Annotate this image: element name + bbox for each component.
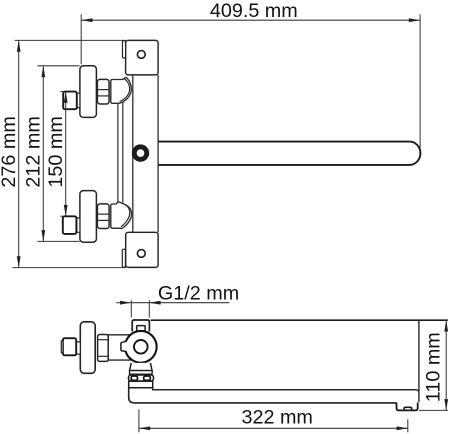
- collar band B right pill: [144, 376, 151, 380]
- bottom handle escutcheon: [111, 202, 132, 229]
- collar band B: [129, 375, 154, 381]
- bottom handle hex adapter: [97, 204, 109, 229]
- center screw ring: [132, 144, 149, 161]
- bottom handle neck: [77, 218, 80, 232]
- dimension 150 mm line: [60, 92, 65, 217]
- valve inner circle: [134, 340, 148, 354]
- svg-text:276 mm: 276 mm: [0, 116, 20, 187]
- dimension G1/2 arrowheads: [120, 301, 161, 305]
- svg-text:110 mm: 110 mm: [423, 332, 445, 402]
- bottom handle cap: [80, 191, 97, 243]
- dimension 212 arrowheads: [41, 66, 45, 242]
- collar band C: [129, 381, 153, 388]
- dimension 110 mm line: [419, 320, 448, 410]
- svg-text:322 mm: 322 mm: [241, 406, 312, 428]
- top handle knob: [63, 92, 77, 110]
- dimension 150 arrowheads: [64, 92, 68, 217]
- dimension 409.5 mm line: [81, 14, 420, 149]
- dimension 409.5 arrowheads: [81, 18, 420, 22]
- side view spout right edge: [418, 321, 420, 403]
- top mounting plate: [126, 40, 159, 75]
- aerator bump: [404, 407, 412, 410]
- collar band B left pill: [131, 376, 138, 380]
- dimension 322 arrowheads: [139, 426, 408, 430]
- valve lug: [121, 341, 127, 351]
- dimension 322 mm line: [139, 409, 408, 432]
- dimension G1/2 line: [116, 300, 229, 317]
- top handle neck: [77, 93, 80, 107]
- bottom mounting plate: [126, 232, 158, 267]
- svg-text:212 mm: 212 mm: [22, 116, 44, 187]
- G1/2 fitting: [132, 320, 149, 332]
- bottom handle knob: [63, 216, 77, 234]
- side view spout top edge / 110 ext: [151, 319, 448, 321]
- bottom mounting tab: [122, 249, 125, 267]
- top handle hex adapter: [97, 79, 109, 104]
- side knob end cap: [61, 341, 63, 353]
- side handle knob: [63, 338, 76, 355]
- collar band A: [130, 371, 153, 375]
- side adapter plate: [108, 335, 130, 360]
- side handle disc: [80, 322, 95, 374]
- dimension 212 mm line: [37, 66, 79, 242]
- faucet body column (front view): [133, 75, 158, 232]
- cover trim strip: [118, 102, 123, 203]
- top mounting tab: [123, 41, 126, 58]
- side view spout mid contour: [153, 388, 419, 393]
- top plate screw hole: [137, 51, 145, 59]
- side handle neck: [76, 342, 80, 354]
- dimension 276 arrowheads: [17, 40, 21, 267]
- side view spout left + bottom edge: [129, 388, 397, 403]
- top handle escutcheon: [111, 77, 132, 103]
- dimension 276 mm line: [12, 40, 126, 267]
- svg-text:150 mm: 150 mm: [45, 116, 67, 187]
- spout (front view): [158, 142, 420, 165]
- bottom plate screw hole: [137, 250, 145, 258]
- svg-text:409.5 mm: 409.5 mm: [210, 0, 298, 22]
- top handle cap: [80, 66, 97, 118]
- valve throat: [130, 363, 153, 371]
- svg-text:G1/2 mm: G1/2 mm: [158, 283, 239, 305]
- spout aerator foot: [397, 403, 418, 411]
- side hex adapter: [98, 335, 109, 362]
- dimension 110 arrowheads: [444, 320, 448, 410]
- valve body circle: [125, 331, 157, 363]
